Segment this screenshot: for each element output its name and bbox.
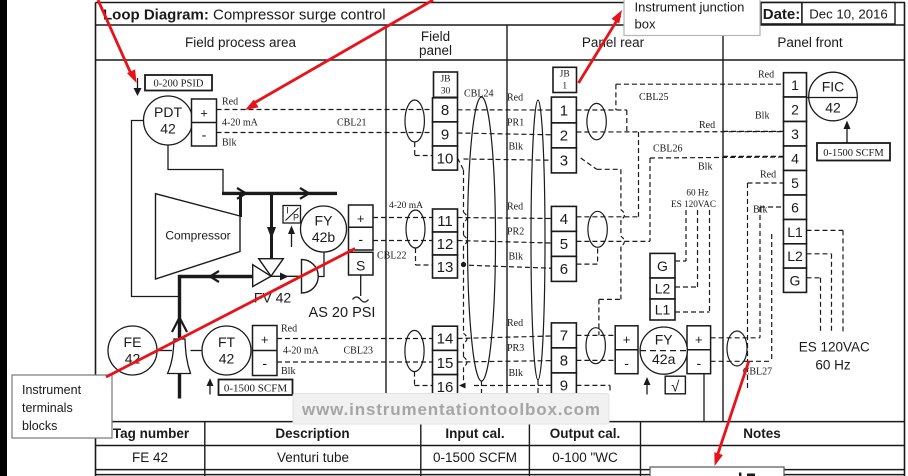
svg-text:Instrument junction: Instrument junction: [635, 0, 745, 15]
svg-text:P: P: [293, 213, 299, 223]
svg-text:-: -: [262, 355, 267, 371]
svg-text:Instrument: Instrument: [22, 383, 82, 397]
svg-text:CBL26: CBL26: [653, 144, 682, 155]
svg-text:Blk: Blk: [222, 138, 236, 149]
svg-text:AS 20 PSI: AS 20 PSI: [309, 305, 376, 321]
svg-text:-: -: [358, 231, 363, 247]
svg-text:blocks: blocks: [22, 419, 57, 433]
svg-text:CBL21: CBL21: [337, 118, 366, 129]
svg-text:+: +: [200, 106, 208, 121]
svg-text:5: 5: [791, 175, 799, 191]
svg-text:3: 3: [791, 126, 799, 142]
svg-text:L2: L2: [787, 248, 803, 264]
svg-text:L2: L2: [655, 281, 671, 297]
svg-text:Blk: Blk: [509, 368, 523, 379]
svg-text:G: G: [790, 272, 801, 288]
svg-text:42: 42: [825, 100, 841, 116]
svg-text:FE 42: FE 42: [132, 450, 168, 465]
svg-text:Red: Red: [760, 170, 776, 181]
svg-text:6: 6: [791, 199, 799, 215]
svg-text:0-100 "WC: 0-100 "WC: [552, 450, 618, 465]
svg-text:Venturi tube: Venturi tube: [277, 450, 349, 465]
svg-text:PDT: PDT: [154, 104, 182, 120]
svg-text:PR2: PR2: [507, 227, 524, 238]
svg-text:6: 6: [560, 261, 568, 278]
svg-text:Input cal.: Input cal.: [445, 426, 504, 441]
svg-text:terminals: terminals: [22, 401, 73, 415]
svg-text:Blk: Blk: [509, 252, 523, 263]
svg-text:+: +: [695, 332, 703, 347]
svg-text:+: +: [261, 332, 269, 347]
svg-text:ES 120VAC: ES 120VAC: [671, 199, 716, 209]
svg-text:Blk: Blk: [753, 205, 767, 216]
svg-text:4: 4: [560, 211, 568, 228]
svg-text:PR3: PR3: [507, 343, 524, 354]
svg-text:11: 11: [437, 213, 453, 230]
svg-text:14: 14: [437, 331, 454, 348]
svg-text:9: 9: [560, 378, 568, 395]
svg-text:I: I: [286, 206, 289, 216]
svg-text:Compressor: Compressor: [165, 228, 230, 242]
svg-text:42a: 42a: [652, 351, 676, 367]
svg-text:Panel front: Panel front: [777, 35, 843, 50]
svg-text:Field process area: Field process area: [185, 35, 297, 50]
svg-text:13: 13: [437, 259, 454, 276]
svg-text:1: 1: [791, 77, 799, 93]
svg-text:+: +: [357, 211, 365, 226]
svg-text:4-20 mA: 4-20 mA: [283, 346, 320, 357]
svg-text:Red: Red: [507, 318, 523, 329]
svg-text:Loop Diagram: Compressor surge: Loop Diagram: Compressor surge control: [103, 7, 386, 24]
svg-text:Red: Red: [758, 70, 774, 81]
svg-text:Blk: Blk: [755, 111, 769, 122]
svg-text:15: 15: [437, 355, 454, 372]
svg-text:Red: Red: [281, 324, 297, 335]
svg-text:CBL23: CBL23: [344, 346, 373, 357]
svg-text:FIC: FIC: [822, 79, 845, 95]
svg-text:Red: Red: [222, 97, 238, 108]
svg-text:FY: FY: [655, 332, 674, 348]
svg-text:4-20 mA: 4-20 mA: [222, 118, 259, 129]
svg-text:S: S: [356, 258, 365, 274]
svg-text:CBL22: CBL22: [377, 251, 406, 262]
svg-text:0-1500 SCFM: 0-1500 SCFM: [433, 450, 517, 465]
svg-text:0-1500 SCFM: 0-1500 SCFM: [823, 148, 884, 159]
svg-text:5: 5: [560, 236, 568, 253]
svg-text:Red: Red: [699, 120, 715, 131]
svg-text:Blk: Blk: [509, 142, 523, 153]
svg-text:www.instrumentationtoolbox.com: www.instrumentationtoolbox.com: [301, 400, 600, 419]
svg-text:0-200 PSID: 0-200 PSID: [154, 78, 204, 89]
svg-text:60 Hz: 60 Hz: [815, 357, 851, 372]
svg-text:42b: 42b: [312, 229, 336, 245]
svg-text:4-20 mA: 4-20 mA: [389, 201, 423, 211]
svg-text:42: 42: [219, 351, 235, 367]
svg-text:10: 10: [437, 150, 454, 167]
svg-text:Dec 10, 2016: Dec 10, 2016: [809, 7, 887, 22]
svg-text:1: 1: [560, 102, 568, 119]
svg-text:8: 8: [560, 353, 568, 370]
svg-text:G: G: [657, 258, 668, 274]
svg-text:-: -: [696, 355, 701, 371]
svg-text:Field: Field: [421, 29, 450, 44]
svg-text:8: 8: [441, 102, 449, 119]
svg-text:0-1500 SCFM: 0-1500 SCFM: [224, 382, 287, 394]
svg-text:box: box: [635, 17, 656, 32]
svg-text:Red: Red: [507, 202, 523, 213]
svg-text:Date:: Date:: [763, 6, 801, 23]
svg-text:Blk: Blk: [698, 162, 712, 173]
svg-text:-: -: [202, 127, 207, 143]
svg-text:CBL24: CBL24: [464, 89, 493, 100]
svg-text:L1: L1: [787, 224, 803, 240]
svg-text:2: 2: [560, 128, 568, 145]
svg-text:Description: Description: [275, 426, 349, 441]
svg-text:Output cal.: Output cal.: [550, 426, 621, 441]
svg-text:L1: L1: [655, 302, 671, 318]
svg-text:CBL25: CBL25: [639, 92, 668, 103]
svg-text:Blk: Blk: [281, 366, 295, 377]
svg-text:30: 30: [441, 87, 451, 97]
svg-text:60 Hz: 60 Hz: [686, 188, 708, 198]
svg-text:JB: JB: [560, 70, 570, 80]
svg-text:FY: FY: [315, 213, 334, 229]
svg-text:panel: panel: [419, 43, 452, 58]
svg-text:Notes: Notes: [743, 426, 781, 441]
svg-text:3: 3: [560, 153, 568, 170]
svg-text:+: +: [623, 332, 631, 347]
svg-text:42: 42: [160, 121, 176, 137]
svg-text:Tag number: Tag number: [113, 426, 190, 441]
svg-text:-: -: [624, 355, 629, 371]
svg-text:JB: JB: [440, 75, 450, 85]
svg-text:Red: Red: [507, 93, 523, 104]
svg-text:FT: FT: [218, 334, 236, 350]
svg-text:7: 7: [560, 328, 568, 345]
svg-text:FE: FE: [124, 334, 142, 350]
svg-text:1: 1: [562, 82, 567, 92]
svg-text:9: 9: [441, 126, 449, 143]
svg-text:2: 2: [791, 101, 799, 117]
svg-text:√: √: [671, 379, 680, 396]
svg-text:PR1: PR1: [507, 118, 524, 129]
svg-text:12: 12: [437, 236, 454, 253]
svg-text:ES 120VAC: ES 120VAC: [799, 340, 870, 355]
svg-text:4: 4: [791, 150, 799, 166]
svg-text:Panel rear: Panel rear: [582, 35, 645, 50]
